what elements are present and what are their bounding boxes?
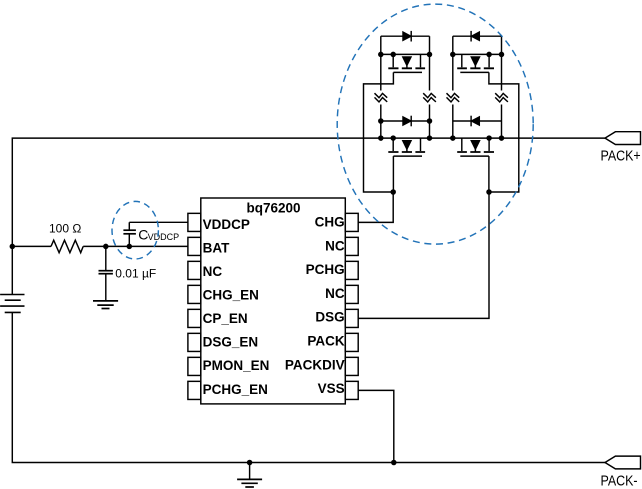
pin DSG box bbox=[345, 309, 358, 327]
pin CHG label bbox=[315, 215, 345, 230]
wire DSG gate net bbox=[358, 192, 489, 318]
label PACK+ bbox=[601, 147, 641, 163]
pin NC right1 label bbox=[325, 238, 345, 253]
transistor Q4 (bottom right DSG FET) bbox=[457, 138, 494, 156]
wire BAT net (battery to BAT pin) bbox=[12, 245, 188, 247]
pin CHG box bbox=[345, 213, 358, 231]
ground GND2 (bottom rail) bbox=[237, 463, 262, 488]
svg-text:PCHG: PCHG bbox=[306, 262, 345, 277]
svg-text:NC: NC bbox=[325, 238, 345, 253]
svg-text:PACK: PACK bbox=[307, 334, 345, 349]
pin PACK box bbox=[345, 333, 358, 351]
wire Q4 gate routing bbox=[488, 156, 490, 192]
svg-text:100 Ω: 100 Ω bbox=[49, 221, 81, 235]
node junction CHG gate bbox=[390, 189, 396, 195]
svg-text:PACKDIV: PACKDIV bbox=[285, 357, 345, 372]
wire right pair left rail (bottom) bbox=[452, 105, 454, 139]
svg-text:VSS: VSS bbox=[318, 381, 345, 396]
pin VSS label bbox=[318, 381, 345, 396]
transistor Q2 (bottom left CHG FET) bbox=[388, 138, 425, 156]
svg-text:PCHG_EN: PCHG_EN bbox=[203, 382, 268, 397]
pin PACK label bbox=[307, 334, 345, 349]
pin PCHG_EN box bbox=[188, 381, 201, 399]
pin NC left box bbox=[188, 261, 201, 279]
node junction DSG gate bbox=[486, 189, 492, 195]
wire Q2 gate routing bbox=[392, 156, 394, 192]
pin CP_EN box bbox=[188, 309, 201, 327]
diode D3 body diode top-right bbox=[453, 31, 502, 42]
wire VDDCP net bbox=[129, 221, 188, 223]
break symbol left pair left rail bbox=[375, 93, 388, 102]
node junction C1 tap bbox=[103, 244, 109, 250]
node junction CVDDCP tap bbox=[127, 244, 133, 250]
node junctions bottom diode row (left pair only) bbox=[378, 118, 432, 124]
terminal PACK+ bbox=[605, 132, 641, 145]
node junctions top source-drain row left pair bbox=[378, 52, 432, 58]
diode D1 body diode top-left bbox=[381, 31, 430, 42]
pin CP_EN label bbox=[203, 311, 248, 326]
label C1 value 0.01 uF bbox=[115, 266, 156, 280]
pin NC right1 box bbox=[345, 237, 358, 255]
wire top source-drain row right pair bbox=[453, 53, 502, 55]
node junction VSS/bottom rail bbox=[391, 460, 397, 466]
wire Q1 gate routing bbox=[364, 72, 394, 192]
terminal PACK- bbox=[605, 456, 641, 469]
svg-text:NC: NC bbox=[325, 286, 345, 301]
diode D2 body diode bottom-left bbox=[381, 116, 430, 127]
node junction left rail / BAT bbox=[10, 244, 16, 250]
pin DSG_EN label bbox=[203, 335, 259, 350]
capacitor C1 0.01 uF bbox=[99, 246, 113, 301]
wire top source-drain row left pair bbox=[381, 53, 430, 55]
ellipse highlight FET array (dashed blue) bbox=[337, 4, 533, 244]
pin NC right2 label bbox=[325, 286, 345, 301]
svg-text:VDDCP: VDDCP bbox=[148, 232, 180, 242]
wire right pair left rail (top) bbox=[452, 36, 454, 90]
wire CHG gate net bbox=[358, 192, 393, 222]
pin PACKDIV label bbox=[285, 357, 345, 372]
svg-text:DSG: DSG bbox=[315, 310, 344, 325]
pin VDDCP box bbox=[188, 213, 201, 231]
pin PCHG_EN label bbox=[203, 382, 268, 397]
svg-text:CHG: CHG bbox=[315, 215, 345, 230]
svg-text:PACK+: PACK+ bbox=[601, 147, 641, 163]
ground GND1 (below C1) bbox=[93, 301, 118, 309]
svg-text:PACK-: PACK- bbox=[601, 473, 638, 489]
IC U1 bq76200 body bbox=[201, 198, 345, 404]
pin CHG_EN box bbox=[188, 285, 201, 303]
label C2 CVDDCP bbox=[138, 226, 179, 242]
svg-text:DSG_EN: DSG_EN bbox=[203, 335, 259, 350]
svg-text:VDDCP: VDDCP bbox=[203, 217, 250, 232]
transistor Q3 (top right DSG FET) bbox=[457, 54, 494, 72]
label U1 bq76200 bbox=[246, 200, 300, 215]
pin PCHG box bbox=[345, 261, 358, 279]
transistor Q1 (top left CHG FET) bbox=[388, 54, 425, 72]
svg-text:NC: NC bbox=[203, 264, 223, 279]
wire PACK+ rail (BAT+ to PACK+) bbox=[12, 138, 605, 294]
wire left pair left rail (bottom) bbox=[380, 105, 382, 139]
ellipse highlight CVDDCP (dashed blue) bbox=[112, 201, 158, 259]
pin PCHG label bbox=[306, 262, 345, 277]
svg-text:CP_EN: CP_EN bbox=[203, 311, 248, 326]
pin CHG_EN label bbox=[203, 288, 259, 303]
resistor R1 100 ohm bbox=[51, 240, 83, 253]
break symbol right pair right rail bbox=[495, 93, 508, 102]
svg-text:PMON_EN: PMON_EN bbox=[203, 358, 270, 373]
node junctions top source-drain row right pair bbox=[450, 52, 504, 58]
svg-text:CHG_EN: CHG_EN bbox=[203, 288, 259, 303]
label PACK- bbox=[601, 473, 638, 489]
wire left pair right rail (top) bbox=[429, 36, 431, 90]
pin NC left label bbox=[203, 264, 223, 279]
battery BT1 bbox=[0, 295, 24, 313]
pin BAT box bbox=[188, 237, 201, 255]
svg-text:0.01 µF: 0.01 µF bbox=[115, 266, 156, 280]
pin DSG label bbox=[315, 310, 344, 325]
pin PMON_EN box bbox=[188, 357, 201, 375]
wire right pair right rail (bottom) bbox=[501, 105, 503, 139]
wire left pair right rail (bottom) bbox=[429, 105, 431, 139]
wire VSS net bbox=[358, 390, 394, 462]
pin VSS box bbox=[345, 381, 358, 399]
wire Q3 gate routing bbox=[489, 72, 519, 192]
break symbol right pair left rail bbox=[447, 93, 460, 102]
pin DSG_EN box bbox=[188, 333, 201, 351]
svg-text:bq76200: bq76200 bbox=[246, 200, 300, 215]
diode D4 body diode bottom-right bbox=[453, 116, 502, 127]
node junctions PACK+ row bbox=[378, 135, 504, 141]
pin VDDCP label bbox=[203, 217, 250, 232]
pin NC right2 box bbox=[345, 285, 358, 303]
wire left pair left rail (top) bbox=[380, 36, 382, 90]
svg-text:BAT: BAT bbox=[203, 240, 230, 255]
wire right pair right rail (top) bbox=[501, 36, 503, 90]
capacitor C2 CVDDCP bbox=[123, 222, 135, 246]
pin PACKDIV box bbox=[345, 357, 358, 375]
pin PMON_EN label bbox=[203, 358, 270, 373]
label R1 value 100 ohm bbox=[49, 221, 81, 235]
break symbol left pair right rail bbox=[423, 93, 436, 102]
node junction ground/bottom rail bbox=[247, 460, 253, 466]
wire PACK- bottom rail bbox=[12, 312, 605, 462]
pin BAT label bbox=[203, 240, 230, 255]
